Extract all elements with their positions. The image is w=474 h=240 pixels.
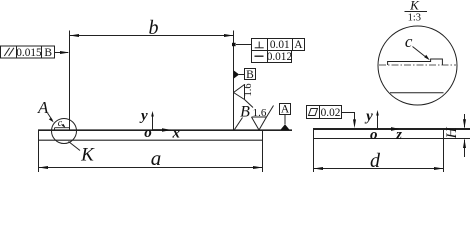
plate front view bottom edge [38, 139, 263, 141]
plate front view left edge [38, 130, 40, 172]
side view plate right edge [443, 128, 445, 172]
coordinate axis y (side view) [377, 113, 379, 129]
plate front view right edge [262, 130, 264, 172]
dimension b arrowheads [70, 34, 80, 37]
svg-text:K: K [80, 145, 95, 166]
step c inside detail circle [55, 128, 70, 130]
svg-text:0.01: 0.01 [270, 39, 290, 51]
svg-text:o: o [144, 125, 152, 141]
flatness symbol parallelogram [309, 109, 318, 116]
svg-text:z: z [395, 127, 402, 143]
svg-text:y: y [139, 108, 148, 124]
perpendicularity feature control frame [252, 39, 305, 51]
side view plate top surface [313, 128, 470, 130]
svg-text:1.6: 1.6 [243, 83, 254, 96]
svg-text:1:3: 1:3 [408, 12, 421, 23]
leader from frames to block edge with square dot [236, 44, 252, 46]
svg-text:0.015: 0.015 [16, 47, 42, 59]
svg-text:a: a [151, 146, 162, 170]
svg-text:A: A [294, 39, 303, 51]
coordinate axis y (front view) [152, 114, 154, 130]
bottom chord line in detail view [390, 92, 444, 94]
svg-text:0.02: 0.02 [321, 107, 341, 119]
block front view right edge [233, 31, 235, 131]
H extension bottom line [444, 138, 471, 140]
svg-text:B: B [246, 69, 254, 81]
dimension a arrowheads [39, 166, 49, 169]
straightness feature control frame [252, 51, 292, 63]
svg-text:0.012: 0.012 [267, 51, 293, 63]
detail circle at block/plate corner [52, 119, 77, 144]
chain line in detail view [379, 64, 456, 66]
side view plate left edge [313, 128, 315, 172]
side view plate bottom edge [313, 138, 444, 140]
svg-text:A: A [37, 98, 49, 117]
coordinate axis z (side view) [391, 127, 400, 131]
parallelism feature control frame [1, 46, 55, 58]
svg-text:A: A [281, 104, 290, 116]
datum B symbol triangle [234, 70, 240, 78]
svg-text:B: B [240, 103, 250, 120]
flatness feature control frame [307, 106, 342, 119]
parallelism leader arrow [55, 52, 69, 54]
plate front view top surface [38, 129, 292, 131]
svg-text:o: o [370, 127, 378, 143]
parallelism symbol [4, 48, 9, 56]
svg-text:1.6: 1.6 [253, 107, 267, 119]
svg-text:d: d [370, 150, 381, 172]
dimension b line [70, 35, 234, 37]
dimension d line [314, 168, 444, 170]
perpendicularity symbol [258, 42, 260, 48]
svg-text:c: c [58, 118, 63, 129]
step profile in detail view [388, 59, 443, 65]
roughness symbol 1.6 on block right edge (rotated) [234, 85, 254, 108]
svg-text:y: y [364, 108, 373, 124]
datum A symbol triangle on plate surface [280, 124, 289, 130]
dimension H line and arrows [464, 114, 466, 128]
straightness symbol [255, 55, 264, 57]
svg-text:b: b [149, 17, 159, 39]
svg-text:x: x [172, 126, 181, 142]
flatness leader [342, 113, 355, 123]
datum B box [245, 69, 256, 80]
svg-text:c: c [405, 32, 413, 51]
datum A box [280, 104, 291, 115]
detail view K circle [378, 26, 457, 105]
svg-text:H: H [444, 126, 460, 139]
svg-text:B: B [44, 47, 52, 59]
svg-text:K: K [409, 0, 420, 13]
block front view left edge [69, 31, 71, 131]
coordinate axis x (front view) [153, 129, 166, 131]
label K with leader [69, 142, 81, 151]
dimension a line [39, 167, 263, 169]
roughness symbol 1.6 on plate top surface [252, 106, 274, 131]
